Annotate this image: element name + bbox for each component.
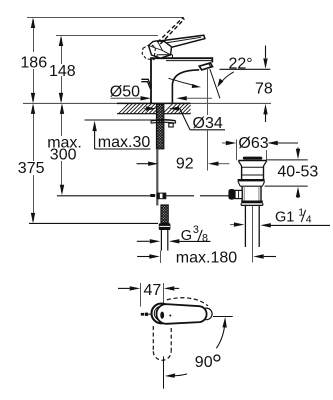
- supply pipe below nut: [160, 230, 162, 251]
- drain dome plug: [243, 157, 262, 160]
- dim 47 arrows: [118, 287, 130, 289]
- svg-text:90: 90: [195, 354, 213, 371]
- svg-text:78: 78: [255, 80, 273, 97]
- svg-text:3: 3: [193, 224, 199, 236]
- hose lower braid: [161, 205, 168, 223]
- handle solid blade: [158, 35, 205, 48]
- cartridge cap: [157, 55, 173, 58]
- bottom view: dim 47 ext lines: [140, 283, 142, 307]
- dim max180: [137, 256, 149, 258]
- angle arc arrow right: [220, 72, 234, 84]
- 375 bottom ref line: [29, 222, 158, 224]
- pivot mark: [160, 312, 164, 319]
- drain mid body: [241, 186, 243, 200]
- dim D63 arrows: [222, 142, 227, 144]
- datum line at aerator level: [220, 68, 271, 70]
- faucet body outline: [151, 58, 212, 103]
- svg-text:47: 47: [144, 282, 162, 299]
- deck top line: [23, 102, 117, 104]
- label D34: [191, 116, 225, 130]
- svg-text:8: 8: [202, 233, 208, 245]
- max.30 line: [85, 119, 157, 121]
- drain collar: [241, 201, 263, 204]
- 90deg arc: [216, 322, 225, 349]
- ref line 148 top: [56, 35, 158, 37]
- dim 186 arrows: [31, 18, 35, 29]
- dashed raised lever: [157, 18, 183, 44]
- washer tab: [169, 123, 173, 127]
- svg-text:40-53: 40-53: [277, 163, 318, 180]
- svg-text:92: 92: [176, 156, 194, 173]
- svg-text:300: 300: [50, 146, 77, 163]
- svg-text:G1: G1: [275, 210, 294, 226]
- drain side knob: [228, 189, 235, 200]
- dim max300 vertical line: [61, 106, 63, 192]
- top view rod knob ticks: [141, 313, 144, 316]
- G3/8 nut: [159, 223, 171, 230]
- svg-text:375: 375: [18, 160, 45, 177]
- deck bottom line: [117, 113, 191, 115]
- svg-text:148: 148: [49, 63, 76, 80]
- svg-text:Ø50: Ø50: [110, 83, 140, 100]
- max180 left ext line: [160, 251, 162, 264]
- max300 datum + horizontal pop-up rod: [57, 195, 150, 197]
- svg-text:max.180: max.180: [176, 250, 237, 267]
- drain flange: [238, 179, 265, 181]
- dim 40-53 arrows: [297, 148, 299, 152]
- deck hatch right: [164, 103, 191, 113]
- max.30 arrow: [94, 130, 96, 149]
- svg-text:186: 186: [20, 54, 47, 71]
- svg-text:22°: 22°: [229, 55, 253, 72]
- dashed upper arc: [167, 298, 208, 306]
- top view body circle: [152, 304, 172, 324]
- drain tailpipe: [244, 205, 246, 247]
- svg-text:Ø63: Ø63: [238, 135, 268, 152]
- rod clevis: [150, 194, 155, 197]
- dim 92 left arrow: [137, 163, 149, 165]
- top view spout end circle: [201, 308, 213, 320]
- washer below deck: [151, 120, 176, 121]
- ext line horiz (90deg): [213, 316, 233, 318]
- dim max300 arrows: [60, 103, 64, 114]
- svg-text:G: G: [181, 228, 192, 244]
- dim 78 arrows: [265, 46, 267, 59]
- ref line 186 top: [27, 17, 184, 19]
- aerator slant line: [210, 69, 220, 98]
- max.30 underline: [95, 148, 151, 150]
- dim G1 1/4: [230, 224, 234, 226]
- ext line vert (90deg): [163, 356, 165, 388]
- dashed vertical capsule (swivel ghost): [153, 326, 171, 360]
- pop-up rod hook: [141, 79, 151, 87]
- aerator: [199, 63, 212, 70]
- pop-up vertical rod: [156, 149, 158, 206]
- dim 186 vertical line: [33, 20, 35, 101]
- dim G3/8 arrows: [137, 240, 150, 242]
- svg-text:4: 4: [306, 213, 312, 225]
- top view lever capsule: [156, 304, 206, 324]
- dim 375 vertical line: [33, 106, 35, 221]
- dashed knuckle ghost: [142, 44, 155, 59]
- angle arc arrow left: [169, 78, 197, 86]
- spout vertical ref line: [207, 68, 209, 115]
- deck hatch left: [119, 103, 157, 113]
- drain center ext line: [252, 206, 254, 263]
- dim 148 vertical line: [61, 38, 63, 101]
- drain upper body: [241, 166, 243, 179]
- drain D63 ext lines: [236, 140, 238, 161]
- dim 375 arrows: [31, 103, 35, 114]
- shank braided hose upper: [157, 104, 164, 149]
- dim 92 right arrow: [208, 162, 219, 166]
- dim 148 arrows: [59, 36, 63, 47]
- dashed lever tip cap: [182, 18, 185, 20]
- handle knuckle: [149, 41, 172, 58]
- dim 40-53 ext lines: [267, 159, 308, 161]
